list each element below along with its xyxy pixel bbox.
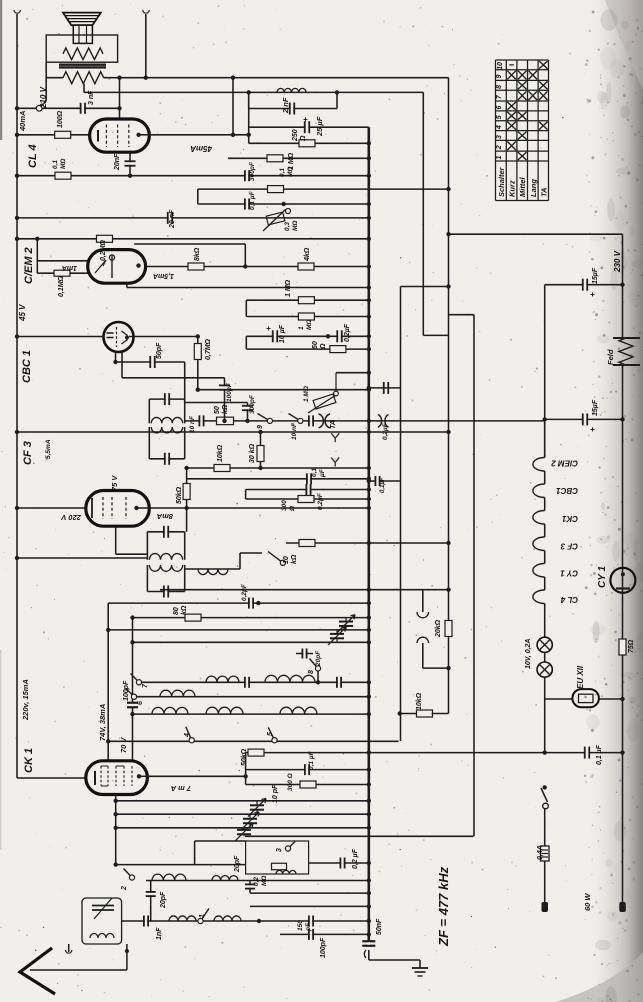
svg-text:CIEM 2: CIEM 2 [551, 459, 578, 468]
svg-text:0,1MΩ: 0,1MΩ [58, 275, 65, 297]
svg-text:CF 3: CF 3 [560, 542, 578, 551]
svg-text:CBC1: CBC1 [556, 486, 578, 495]
svg-text:10: 10 [283, 556, 290, 564]
svg-text:10 µF: 10 µF [279, 324, 286, 343]
svg-text:5,5mA: 5,5mA [45, 439, 52, 459]
svg-text:CL 4: CL 4 [27, 144, 39, 168]
svg-text:CBC 1: CBC 1 [21, 350, 33, 383]
svg-text:25 µF: 25 µF [315, 116, 324, 137]
svg-text:20pF: 20pF [234, 855, 241, 873]
svg-text:300: 300 [281, 500, 288, 511]
svg-text:ZF = 477 kHz: ZF = 477 kHz [436, 866, 451, 947]
svg-text:4: 4 [184, 733, 191, 738]
svg-text:4kΩ: 4kΩ [304, 247, 311, 262]
svg-text:0,3: 0,3 [284, 222, 291, 231]
svg-text:50pF: 50pF [156, 342, 163, 359]
svg-text:0,2: 0,2 [253, 877, 260, 886]
svg-text:+: + [590, 290, 595, 299]
svg-text:75Ω: 75Ω [628, 639, 635, 653]
svg-text:3 nF: 3 nF [88, 90, 95, 105]
svg-text:60 W: 60 W [583, 893, 592, 911]
svg-text:10 pF: 10 pF [272, 784, 279, 803]
svg-text:6: 6 [496, 105, 503, 109]
svg-text:1: 1 [298, 326, 305, 330]
svg-text:kΩ: kΩ [291, 554, 298, 564]
svg-text:74V, 38mA: 74V, 38mA [98, 704, 107, 741]
svg-text:10kΩ: 10kΩ [217, 444, 224, 462]
svg-text:10V, 0,2A: 10V, 0,2A [525, 639, 532, 670]
svg-text:20 nF: 20 nF [169, 209, 176, 229]
svg-text:kΩ: kΩ [181, 605, 188, 615]
svg-text:7 m A: 7 m A [171, 784, 191, 793]
svg-text:2: 2 [496, 145, 503, 150]
svg-text:50kΩ: 50kΩ [241, 748, 248, 766]
svg-text:EU XII: EU XII [576, 665, 585, 689]
svg-text:8mA: 8mA [157, 512, 173, 521]
svg-text:0,2µF: 0,2µF [382, 422, 389, 440]
svg-text:MΩ: MΩ [60, 159, 67, 170]
svg-text:Ω: Ω [300, 135, 307, 142]
svg-text:10: 10 [497, 62, 504, 70]
svg-text:80: 80 [173, 607, 180, 615]
svg-text:1nF: 1nF [156, 927, 163, 940]
svg-text:3: 3 [496, 135, 503, 139]
svg-text:5: 5 [496, 115, 503, 119]
svg-text:300pF: 300pF [249, 394, 256, 414]
svg-text:0,7MΩ: 0,7MΩ [205, 338, 212, 360]
svg-text:100Ω: 100Ω [57, 110, 64, 128]
svg-text:230 V: 230 V [613, 250, 622, 273]
svg-text:0,1: 0,1 [311, 468, 318, 477]
svg-text:MΩ: MΩ [306, 320, 313, 331]
svg-text:Kurz: Kurz [508, 180, 517, 197]
svg-text:9: 9 [496, 75, 503, 79]
svg-text:C/EM 2: C/EM 2 [23, 247, 35, 284]
svg-text:2: 2 [121, 886, 128, 891]
svg-text:50: 50 [312, 341, 319, 349]
svg-text:0,2 µF: 0,2 µF [352, 848, 359, 869]
svg-text:6: 6 [137, 701, 144, 705]
svg-text:Mittel: Mittel [518, 177, 527, 197]
svg-text:+: + [303, 115, 308, 124]
svg-text:pF: pF [305, 922, 312, 932]
svg-text:+: + [590, 425, 595, 434]
svg-text:20nF: 20nF [114, 153, 121, 171]
svg-text:20kΩ: 20kΩ [435, 619, 442, 638]
svg-text:8: 8 [308, 670, 315, 674]
svg-text:50kΩ: 50kΩ [176, 486, 183, 504]
svg-text:1: 1 [496, 156, 503, 160]
svg-text:3: 3 [276, 848, 283, 852]
svg-text:8: 8 [496, 85, 503, 89]
svg-text:40mA: 40mA [18, 111, 27, 132]
svg-text:4: 4 [496, 125, 503, 130]
svg-text:9: 9 [257, 425, 264, 429]
svg-text:0,1 µF: 0,1 µF [249, 190, 256, 210]
svg-text:CK 1: CK 1 [23, 748, 35, 773]
svg-text:100pF: 100pF [226, 382, 233, 402]
svg-text:Ω: Ω [320, 343, 327, 350]
svg-text:8kΩ: 8kΩ [194, 247, 201, 261]
svg-text:TA: TA [539, 188, 548, 197]
svg-text:70 V: 70 V [119, 737, 128, 753]
svg-text:MΩ: MΩ [261, 876, 268, 887]
svg-text:100pF: 100pF [320, 937, 327, 958]
svg-text:300 Ω: 300 Ω [287, 773, 294, 791]
svg-text:Schalter: Schalter [497, 166, 506, 197]
svg-text:250: 250 [292, 129, 299, 142]
svg-text:0,1: 0,1 [279, 168, 286, 177]
svg-text:µF: µF [319, 468, 326, 478]
svg-text:15µF: 15µF [592, 399, 599, 416]
svg-text:300pF: 300pF [249, 161, 256, 181]
svg-text:1,5mA: 1,5mA [153, 272, 174, 279]
svg-text:30 kΩ: 30 kΩ [249, 443, 256, 463]
svg-text:100pF: 100pF [123, 680, 130, 701]
svg-text:210 V: 210 V [39, 86, 48, 109]
svg-text:kΩ: kΩ [222, 404, 229, 414]
svg-text:0,1 µF: 0,1 µF [596, 744, 603, 765]
svg-text:220 V: 220 V [60, 513, 82, 522]
svg-text:0,2µF: 0,2µF [344, 323, 351, 342]
svg-text:10kΩ: 10kΩ [416, 692, 423, 710]
svg-text:10 nF: 10 nF [291, 422, 298, 440]
svg-text:50: 50 [214, 406, 221, 414]
svg-text:Ω: Ω [289, 506, 296, 512]
svg-text:75 V: 75 V [110, 475, 119, 491]
svg-text:0,1 µF: 0,1 µF [308, 750, 315, 770]
svg-text:1 MΩ: 1 MΩ [285, 279, 292, 297]
svg-text:1: 1 [199, 914, 206, 918]
svg-text:1mA: 1mA [62, 264, 77, 271]
svg-text:10 nF: 10 nF [189, 415, 196, 433]
svg-text:220v, 15mA: 220v, 15mA [21, 679, 30, 721]
svg-text:0,1µF: 0,1µF [380, 477, 386, 493]
svg-text:0,2µF: 0,2µF [317, 492, 324, 510]
svg-text:MΩ: MΩ [292, 221, 299, 232]
svg-text:2 nF: 2 nF [281, 97, 290, 114]
svg-text:CY 1: CY 1 [560, 569, 578, 578]
svg-text:0,2MΩ: 0,2MΩ [100, 239, 107, 261]
svg-text:45mA: 45mA [190, 144, 213, 153]
svg-text:+: + [266, 324, 271, 333]
svg-text:MΩ: MΩ [287, 167, 294, 178]
svg-text:Lang: Lang [529, 179, 538, 197]
svg-text:0,2µF: 0,2µF [241, 583, 248, 601]
svg-text:CF 3: CF 3 [22, 441, 34, 465]
svg-text:15µF: 15µF [592, 267, 599, 284]
svg-text:CK1: CK1 [561, 514, 578, 523]
svg-text:45 V: 45 V [18, 304, 27, 322]
svg-text:150: 150 [297, 920, 304, 931]
svg-text:20pF: 20pF [160, 891, 167, 909]
svg-text:Feld: Feld [606, 349, 615, 365]
svg-text:1 MΩ: 1 MΩ [303, 386, 310, 402]
svg-text:50nF: 50nF [376, 918, 383, 935]
svg-text:CL 4: CL 4 [560, 595, 578, 604]
svg-text:CY 1: CY 1 [597, 566, 608, 588]
svg-text:5: 5 [267, 732, 274, 736]
svg-text:20pF: 20pF [315, 650, 322, 667]
svg-text:0,4A: 0,4A [537, 845, 544, 860]
svg-text:0,1: 0,1 [52, 160, 59, 169]
svg-text:TA: TA [330, 420, 337, 429]
